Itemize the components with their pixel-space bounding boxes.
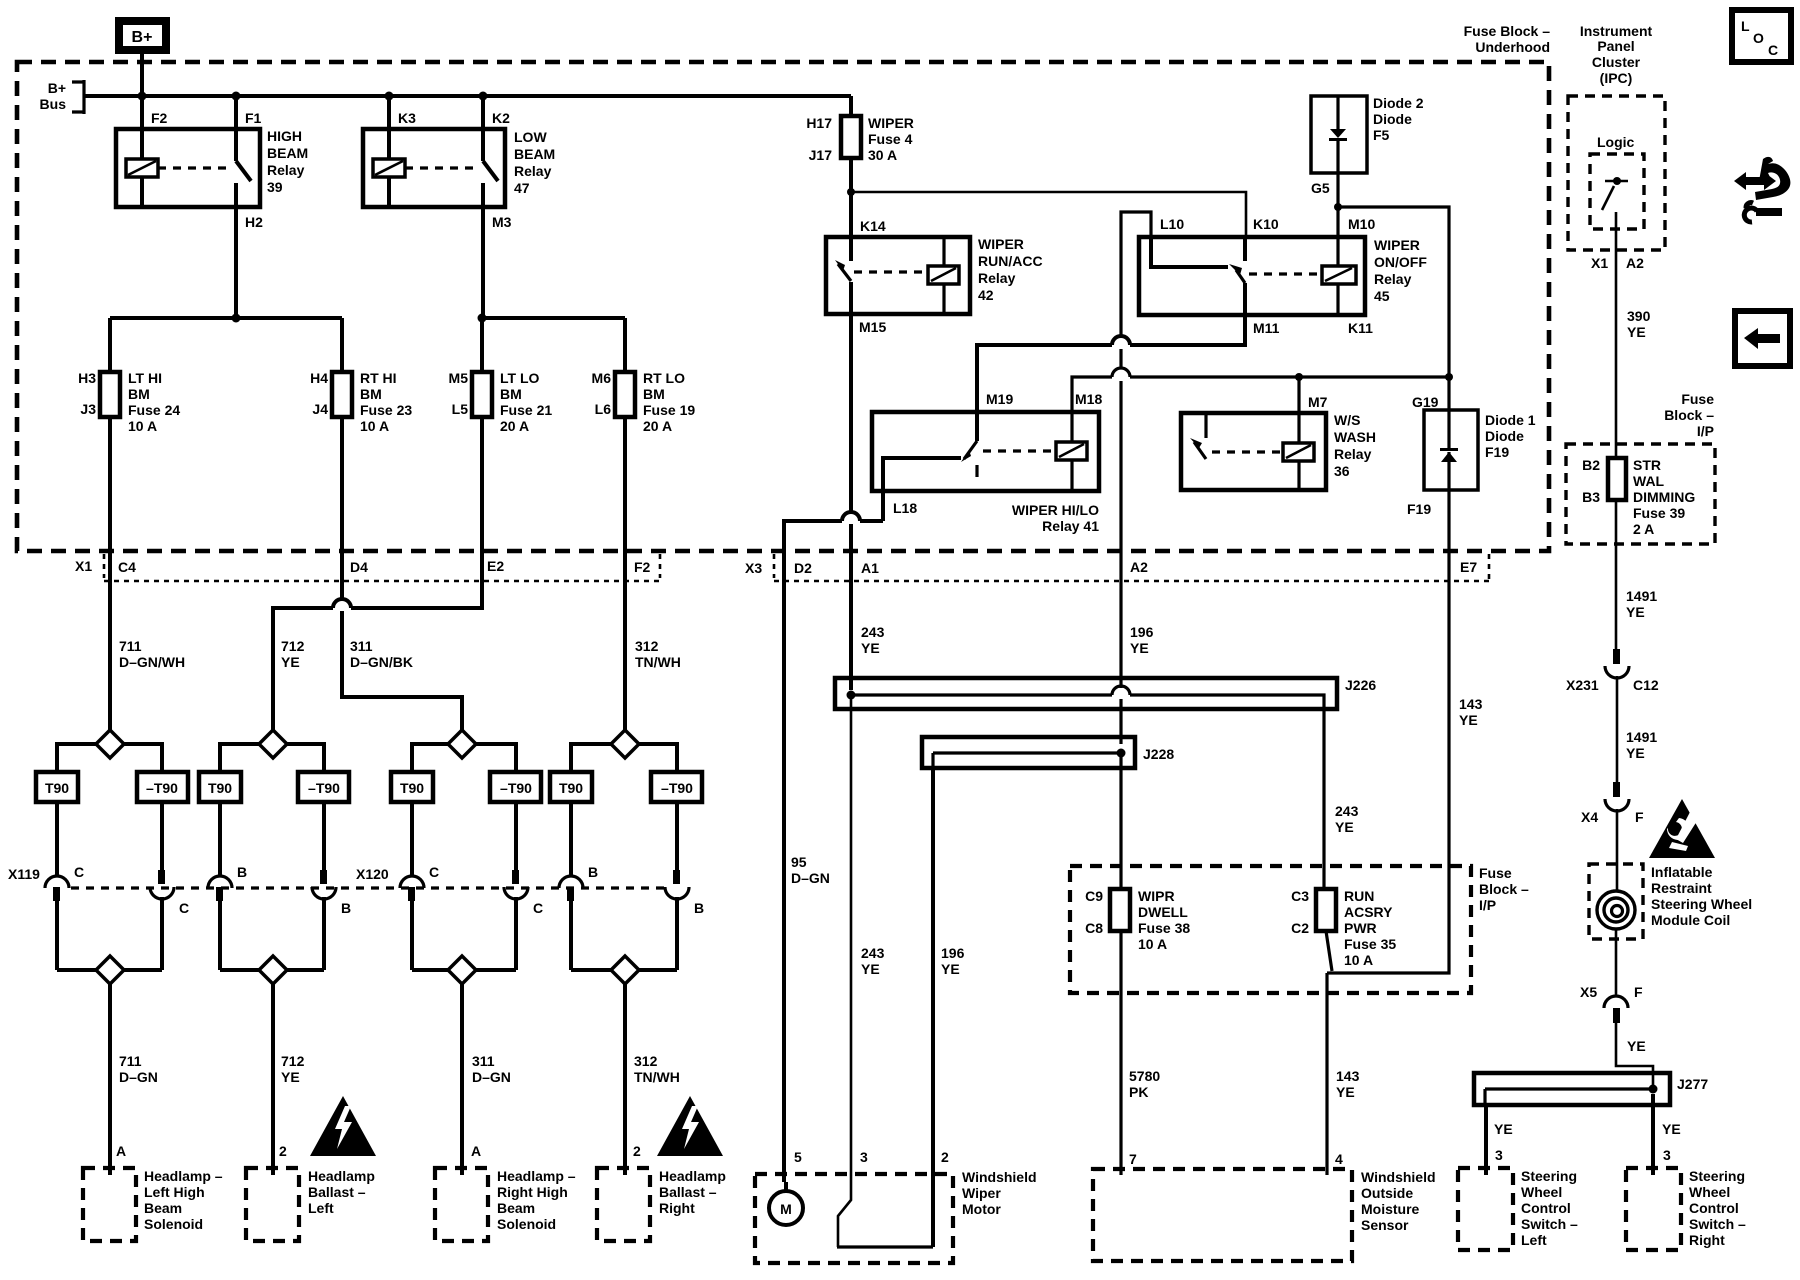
wire 312 circuit F2 down — [623, 551, 627, 730]
splice J277 bar — [1485, 1089, 1653, 1105]
svg-text:C3: C3 — [1291, 888, 1309, 904]
svg-text:39: 39 — [267, 179, 283, 195]
wire logic output — [1615, 212, 1618, 458]
svg-text:K3: K3 — [398, 110, 416, 126]
splice diamond circuit 311 upper — [448, 730, 476, 758]
svg-text:F2: F2 — [151, 110, 168, 126]
connector X1 dotted row — [104, 580, 660, 583]
relay U41 WIPER HI/LO box — [872, 412, 1099, 491]
svg-text:–T90: –T90 — [146, 780, 178, 796]
svg-text:WASH: WASH — [1334, 429, 1376, 445]
wire M15 below J226 to motor — [838, 697, 851, 1247]
fuse F19 RT LO — [615, 372, 635, 417]
svg-text:L5: L5 — [452, 401, 469, 417]
wire fuse4 to K10 — [851, 192, 1246, 237]
-T90 box 4 — [651, 772, 702, 802]
svg-text:M10: M10 — [1348, 216, 1375, 232]
inflatable restraint steering wheel module coil box — [1589, 864, 1643, 939]
svg-text:X119: X119 — [8, 866, 40, 882]
svg-text:2: 2 — [279, 1143, 287, 1159]
svg-text:Fuse 35: Fuse 35 — [1344, 936, 1396, 952]
svg-text:LT HI: LT HI — [128, 370, 162, 386]
svg-text:X4: X4 — [1581, 809, 1598, 825]
splice diamond circuit 311 lower — [412, 968, 516, 972]
svg-text:YE: YE — [1627, 1038, 1646, 1054]
svg-text:311: 311 — [350, 638, 373, 654]
svg-text:B: B — [694, 900, 704, 916]
svg-text:Ballast –: Ballast – — [659, 1184, 717, 1200]
svg-text:F1: F1 — [245, 110, 262, 126]
svg-text:10 A: 10 A — [360, 418, 389, 434]
svg-text:Windshield: Windshield — [962, 1169, 1037, 1185]
warning triangle inflatable restraint — [1649, 799, 1715, 858]
svg-text:Headlamp: Headlamp — [659, 1168, 726, 1184]
wire F2 — [140, 96, 144, 159]
svg-text:Fuse 4: Fuse 4 — [868, 131, 913, 147]
svg-text:F19: F19 — [1407, 501, 1431, 517]
svg-text:M: M — [780, 1201, 792, 1217]
svg-text:Bus: Bus — [40, 96, 67, 112]
fuse F38 WIPR DWELL — [1110, 889, 1130, 931]
svg-text:C2: C2 — [1291, 920, 1309, 936]
svg-text:L: L — [1741, 18, 1750, 34]
svg-text:Wheel: Wheel — [1521, 1184, 1562, 1200]
svg-text:45: 45 — [1374, 288, 1390, 304]
svg-text:F: F — [1635, 809, 1644, 825]
svg-text:Fuse: Fuse — [1479, 865, 1512, 881]
node K2 bus junction — [479, 92, 488, 101]
relay U47 coil link — [405, 166, 473, 169]
pin symbol 2 blade and arc — [158, 870, 165, 884]
svg-text:712: 712 — [281, 1053, 305, 1069]
B+ terminal box — [119, 21, 166, 50]
windshield wiper motor box — [755, 1174, 953, 1263]
node M7 branch junction — [1295, 373, 1303, 381]
SECTION: middle bottom components — [755, 865, 1529, 1263]
node G5 junction — [1334, 203, 1342, 211]
svg-text:RUN/ACC: RUN/ACC — [978, 253, 1043, 269]
steering wheel control switch left box — [1458, 1168, 1513, 1250]
svg-text:TN/WH: TN/WH — [634, 1069, 680, 1085]
wire X231 to X4 — [1616, 676, 1619, 782]
svg-text:5780: 5780 — [1129, 1068, 1160, 1084]
svg-text:Beam: Beam — [497, 1200, 535, 1216]
motor M circle — [784, 1182, 788, 1191]
svg-text:YE: YE — [861, 640, 880, 656]
wire coil to X5 — [1615, 929, 1618, 995]
node E7 riser junction — [1445, 373, 1453, 381]
wire M3 — [481, 207, 485, 318]
svg-text:YE: YE — [281, 1069, 300, 1085]
wire bus to wiper fuse — [849, 96, 853, 116]
svg-text:Relay: Relay — [267, 162, 305, 178]
svg-text:YE: YE — [1626, 604, 1645, 620]
connector X5 symbol — [1604, 996, 1628, 1008]
T90 box 2 — [199, 772, 241, 802]
svg-text:Beam: Beam — [144, 1200, 182, 1216]
svg-text:BM: BM — [128, 386, 150, 402]
svg-text:196: 196 — [1130, 624, 1154, 640]
diode D1 symbol — [1447, 377, 1450, 490]
wires T90 boxes to connector pins — [57, 802, 677, 876]
svg-text:243: 243 — [1335, 803, 1359, 819]
svg-text:Ballast –: Ballast – — [308, 1184, 366, 1200]
svg-text:Fuse 38: Fuse 38 — [1138, 920, 1190, 936]
svg-text:Fuse: Fuse — [1681, 391, 1714, 407]
svg-text:J226: J226 — [1345, 677, 1376, 693]
svg-text:C8: C8 — [1085, 920, 1103, 936]
svg-text:Wheel: Wheel — [1689, 1184, 1730, 1200]
svg-text:A1: A1 — [861, 560, 879, 576]
fuse F35 RUN ACSRY PWR — [1316, 889, 1336, 931]
svg-text:A2: A2 — [1130, 559, 1148, 575]
svg-text:H2: H2 — [245, 214, 263, 230]
svg-text:390: 390 — [1627, 308, 1651, 324]
wire G5 to E7 riser — [1338, 207, 1449, 377]
svg-text:Headlamp –: Headlamp – — [497, 1168, 576, 1184]
svg-text:2 A: 2 A — [1633, 521, 1654, 537]
svg-text:C: C — [533, 900, 543, 916]
wire F19 down to E7 — [1447, 490, 1450, 581]
fuse F39 STR WAL DIMMING — [1608, 458, 1626, 500]
splice diamond circuit 712 lower — [220, 968, 324, 972]
svg-text:C: C — [179, 900, 189, 916]
relay U45 coil — [1336, 237, 1339, 266]
svg-text:1491: 1491 — [1626, 588, 1657, 604]
svg-text:143: 143 — [1459, 696, 1483, 712]
wire L18 to 95 D-GN — [784, 491, 883, 1182]
svg-text:W/S: W/S — [1334, 412, 1360, 428]
svg-text:H4: H4 — [310, 370, 328, 386]
SECTION: right column — [1458, 23, 1752, 1250]
SECTION: wiper circuits — [784, 95, 1536, 1247]
wire F1 — [234, 96, 238, 161]
svg-text:DWELL: DWELL — [1138, 904, 1188, 920]
SECTION: top power feed — [40, 21, 851, 114]
wire 311 circuit D4 down with jog — [342, 551, 462, 730]
svg-text:WIPER HI/LO: WIPER HI/LO — [1012, 502, 1099, 518]
svg-text:Underhood: Underhood — [1475, 39, 1550, 55]
wire hop M18 line over L10 riser — [1112, 368, 1130, 377]
splice diamond circuit 312 lower — [571, 968, 677, 972]
T90 box 1 — [36, 772, 78, 802]
splice J228 box — [922, 737, 1135, 768]
svg-text:YE: YE — [861, 961, 880, 977]
svg-text:Diode: Diode — [1485, 428, 1524, 444]
-T90 box 3 — [490, 772, 541, 802]
svg-text:D–GN/WH: D–GN/WH — [119, 654, 185, 670]
svg-text:95: 95 — [791, 854, 807, 870]
svg-text:F5: F5 — [1373, 127, 1390, 143]
diode D2 box — [1311, 96, 1367, 173]
wire B+ bus — [84, 94, 851, 98]
wire fuse39 output — [1615, 500, 1618, 649]
svg-text:C4: C4 — [118, 559, 136, 575]
svg-text:RT LO: RT LO — [643, 370, 685, 386]
svg-text:–T90: –T90 — [500, 780, 532, 796]
svg-text:Switch –: Switch – — [1689, 1216, 1746, 1232]
svg-text:BEAM: BEAM — [514, 146, 555, 162]
svg-text:DIMMING: DIMMING — [1633, 489, 1695, 505]
relay U45 L10 contact — [1151, 237, 1228, 267]
svg-text:712: 712 — [281, 638, 305, 654]
relay U36 switch — [1204, 413, 1207, 438]
relay U36 coil link — [1212, 450, 1281, 453]
svg-text:L6: L6 — [595, 401, 612, 417]
svg-text:E2: E2 — [487, 558, 504, 574]
svg-text:C12: C12 — [1633, 677, 1659, 693]
svg-text:Relay: Relay — [1374, 271, 1412, 287]
node K3 bus junction — [385, 92, 394, 101]
svg-text:YE: YE — [1662, 1121, 1681, 1137]
svg-text:A2: A2 — [1626, 255, 1644, 271]
fuse F24 LT HI — [100, 372, 120, 417]
svg-text:M18: M18 — [1075, 391, 1102, 407]
svg-text:I/P: I/P — [1479, 897, 1496, 913]
wire K2 — [481, 96, 485, 161]
pin symbol 5 arc and blade — [400, 876, 424, 888]
svg-text:Fuse 39: Fuse 39 — [1633, 505, 1685, 521]
wire hop M11 line over L10 riser — [1112, 336, 1130, 345]
svg-text:T90: T90 — [400, 780, 424, 796]
svg-text:–T90: –T90 — [308, 780, 340, 796]
relay U47 LOW BEAM box — [363, 129, 505, 207]
svg-text:Relay: Relay — [514, 163, 552, 179]
svg-text:Solenoid: Solenoid — [144, 1216, 203, 1232]
svg-text:T90: T90 — [45, 780, 69, 796]
svg-text:J3: J3 — [80, 401, 96, 417]
diode D1 box — [1424, 410, 1478, 490]
relay U42 switch — [849, 237, 853, 261]
relay U36 W/S WASH box — [1181, 413, 1326, 490]
relay U39 HIGH BEAM box — [116, 129, 260, 207]
pin symbol 8 blade and arc — [673, 870, 680, 884]
svg-text:3: 3 — [860, 1149, 868, 1165]
svg-text:YE: YE — [941, 961, 960, 977]
svg-text:2: 2 — [941, 1149, 949, 1165]
svg-text:3: 3 — [1495, 1147, 1503, 1163]
svg-text:X5: X5 — [1580, 984, 1597, 1000]
relay U47 switch — [483, 161, 498, 181]
svg-text:Diode 2: Diode 2 — [1373, 95, 1424, 111]
splice J228 bar — [933, 753, 1121, 768]
connector X119/X120 dashed link — [71, 886, 664, 889]
relay U36 coil — [1297, 413, 1300, 443]
svg-text:47: 47 — [514, 180, 530, 196]
svg-text:X120: X120 — [356, 866, 389, 882]
node J228 junction — [1117, 749, 1126, 758]
logic dashed box — [1590, 154, 1644, 229]
svg-text:Fuse 19: Fuse 19 — [643, 402, 695, 418]
svg-text:A: A — [116, 1143, 126, 1159]
svg-text:311: 311 — [472, 1053, 495, 1069]
svg-text:Right: Right — [659, 1200, 695, 1216]
svg-text:D–GN: D–GN — [472, 1069, 511, 1085]
wire X5 to J277 — [1616, 1023, 1653, 1088]
SECTION: headlamp relays and fuses — [78, 96, 695, 551]
wire X4 to coil module — [1616, 809, 1619, 892]
svg-text:TN/WH: TN/WH — [635, 654, 681, 670]
svg-text:J228: J228 — [1143, 746, 1174, 762]
svg-text:3: 3 — [1663, 1147, 1671, 1163]
headlamp right high beam solenoid box — [435, 1168, 488, 1241]
svg-text:Sensor: Sensor — [1361, 1217, 1409, 1233]
svg-text:M15: M15 — [859, 319, 886, 335]
page route icon — [1755, 157, 1790, 200]
svg-text:K11: K11 — [1348, 320, 1373, 336]
svg-text:B+: B+ — [48, 80, 66, 96]
svg-text:Right: Right — [1689, 1232, 1725, 1248]
svg-text:143: 143 — [1336, 1068, 1360, 1084]
svg-text:E7: E7 — [1460, 559, 1477, 575]
relay U39 coil link — [158, 166, 226, 169]
svg-text:WIPER: WIPER — [868, 115, 914, 131]
svg-text:BM: BM — [643, 386, 665, 402]
svg-text:Cluster: Cluster — [1592, 54, 1641, 70]
wire fuse F4 output — [849, 158, 853, 237]
svg-text:Right High: Right High — [497, 1184, 568, 1200]
instrument panel cluster box — [1568, 96, 1665, 250]
fuse block IP dashed box — [1070, 866, 1471, 993]
svg-text:H17: H17 — [806, 115, 832, 131]
wire K3 — [387, 96, 391, 159]
wire hop 712 over 311 — [333, 599, 351, 608]
svg-text:RT HI: RT HI — [360, 370, 397, 386]
relay U45 WIPER ON/OFF box — [1139, 237, 1365, 315]
svg-text:Control: Control — [1689, 1200, 1739, 1216]
svg-text:YE: YE — [1335, 819, 1354, 835]
module coil spiral — [1597, 891, 1635, 929]
windshield outside moisture sensor box — [1093, 1169, 1352, 1261]
relay U41 L18 contact — [883, 458, 961, 491]
pin symbol 4 blade and arc — [320, 870, 327, 884]
relay U42 WIPER RUN/ACC box — [826, 237, 970, 314]
svg-text:L18: L18 — [893, 500, 917, 516]
svg-text:196: 196 — [941, 945, 965, 961]
warning triangle left ballast — [310, 1096, 376, 1156]
node J226 junction — [847, 691, 856, 700]
svg-text:YE: YE — [1130, 640, 1149, 656]
T90 box 4 — [550, 772, 592, 802]
svg-text:B3: B3 — [1582, 489, 1600, 505]
relay U41 coil link — [983, 449, 1054, 452]
svg-text:BEAM: BEAM — [267, 145, 308, 161]
svg-text:X231: X231 — [1566, 677, 1599, 693]
svg-text:B: B — [341, 900, 351, 916]
wire 5780 PK fuse38 to sensor — [1119, 931, 1122, 1175]
svg-text:T90: T90 — [208, 780, 232, 796]
svg-text:WIPER: WIPER — [978, 236, 1024, 252]
wire fuse35 C2 diagonal link — [1326, 931, 1332, 971]
svg-text:STR: STR — [1633, 457, 1661, 473]
wire 143 YE to sensor pin 4 — [1325, 973, 1328, 1175]
svg-text:LT LO: LT LO — [500, 370, 540, 386]
svg-text:C: C — [429, 864, 439, 880]
svg-text:7: 7 — [1129, 1151, 1137, 1167]
svg-text:711: 711 — [119, 638, 142, 654]
pin symbol 7 arc and blade — [559, 876, 583, 888]
svg-text:J17: J17 — [809, 147, 833, 163]
relay U41 switch — [975, 412, 979, 441]
node H2 T junction — [232, 314, 241, 323]
svg-text:I/P: I/P — [1697, 423, 1714, 439]
wire M18 to diode node — [1072, 377, 1449, 412]
svg-text:Left High: Left High — [144, 1184, 205, 1200]
relay U45 switch — [1243, 237, 1247, 261]
node F1 bus junction — [232, 92, 241, 101]
svg-text:Instrument: Instrument — [1580, 23, 1653, 39]
svg-text:Block –: Block – — [1664, 407, 1714, 423]
svg-text:Diode 1: Diode 1 — [1485, 412, 1536, 428]
node M3 T junction — [478, 314, 487, 323]
svg-text:Windshield: Windshield — [1361, 1169, 1436, 1185]
pin symbol 1 arc and blade — [45, 876, 69, 888]
LOC box — [1732, 10, 1791, 62]
svg-text:F: F — [1634, 984, 1643, 1000]
svg-text:711: 711 — [119, 1053, 142, 1069]
wire hop L18 over M15 wire — [842, 512, 860, 521]
SECTION: corner icons — [1732, 10, 1791, 366]
svg-text:Left: Left — [1521, 1232, 1547, 1248]
svg-text:5: 5 — [794, 1149, 802, 1165]
fuse F23 RT HI — [332, 372, 352, 417]
svg-text:WIPR: WIPR — [1138, 888, 1175, 904]
splice J226 box — [835, 678, 1337, 709]
svg-text:O: O — [1753, 30, 1764, 46]
svg-text:D2: D2 — [794, 560, 812, 576]
svg-text:ON/OFF: ON/OFF — [1374, 254, 1427, 270]
svg-text:B: B — [237, 864, 247, 880]
svg-text:WIPER: WIPER — [1374, 237, 1420, 253]
svg-text:Headlamp: Headlamp — [308, 1168, 375, 1184]
wire 711 circuit C4 down — [108, 551, 112, 730]
svg-text:BM: BM — [360, 386, 382, 402]
splice diamond circuit 711 lower — [57, 968, 162, 972]
T90 box 3 — [391, 772, 433, 802]
svg-text:BM: BM — [500, 386, 522, 402]
svg-text:Panel: Panel — [1597, 38, 1634, 54]
svg-text:B: B — [588, 864, 598, 880]
svg-text:Fuse 21: Fuse 21 — [500, 402, 552, 418]
logic switch — [1605, 180, 1628, 183]
svg-text:M11: M11 — [1253, 320, 1280, 336]
svg-text:D4: D4 — [350, 559, 368, 575]
node F2 bus junction — [138, 92, 147, 101]
svg-text:PWR: PWR — [1344, 920, 1377, 936]
svg-text:Fuse Block –: Fuse Block – — [1464, 23, 1551, 39]
relay U41 coil — [1070, 412, 1073, 442]
svg-text:243: 243 — [861, 945, 885, 961]
svg-text:PK: PK — [1129, 1084, 1148, 1100]
svg-text:Moisture: Moisture — [1361, 1201, 1420, 1217]
fuse block IP right dashed box — [1566, 444, 1715, 544]
pin symbol 3 arc and blade — [208, 876, 232, 888]
splice diamond circuit 712 upper — [259, 730, 287, 758]
svg-text:Fuse 24: Fuse 24 — [128, 402, 180, 418]
svg-text:K2: K2 — [492, 110, 510, 126]
svg-text:YE: YE — [281, 654, 300, 670]
SECTION: headlamp lower tree — [8, 551, 726, 1241]
svg-text:M6: M6 — [592, 370, 612, 386]
wire 196 YE J228 to fuse 38 — [1119, 753, 1122, 889]
svg-text:K10: K10 — [1253, 216, 1279, 232]
relay U39 coil — [126, 159, 158, 177]
svg-text:30 A: 30 A — [868, 147, 897, 163]
svg-text:D–GN/BK: D–GN/BK — [350, 654, 413, 670]
svg-text:T90: T90 — [559, 780, 583, 796]
svg-text:M7: M7 — [1308, 394, 1328, 410]
splice J226 bar — [851, 695, 1324, 709]
